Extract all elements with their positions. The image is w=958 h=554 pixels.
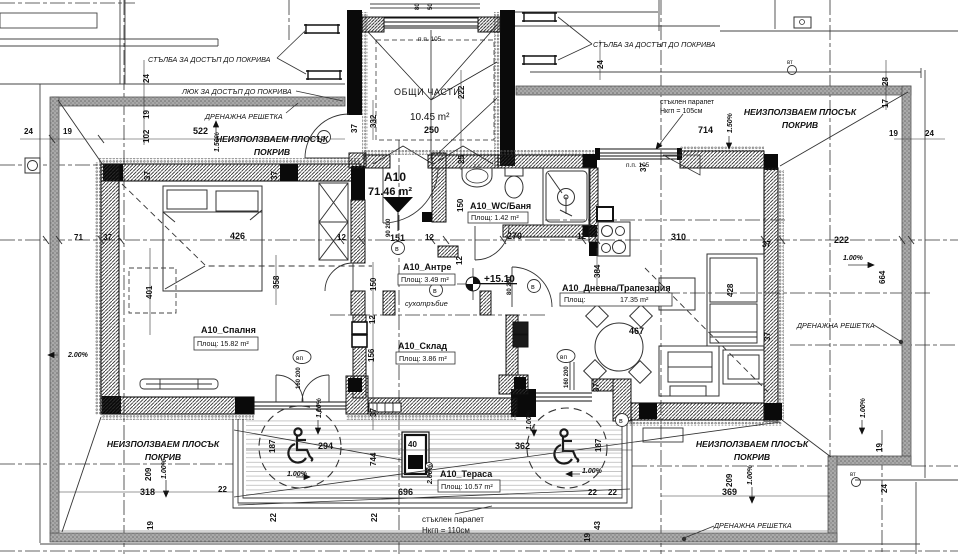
svg-text:вт: вт <box>787 60 793 66</box>
sofa <box>659 346 719 396</box>
svg-text:А10_WC/Баня: А10_WC/Баня <box>470 201 531 211</box>
svg-text:ПОКРИВ: ПОКРИВ <box>734 452 770 462</box>
svg-text:1.00%: 1.00% <box>747 464 754 485</box>
svg-text:1.00%: 1.00% <box>860 397 867 418</box>
stairwell left wall <box>347 10 362 115</box>
stairwell left wall lower stub <box>349 153 366 168</box>
kitchen cabinet <box>597 207 613 221</box>
downpipe marker vt <box>788 66 797 75</box>
svg-text:1.00%: 1.00% <box>526 409 533 430</box>
storage left pilasters <box>352 322 367 334</box>
svg-text:Площ: 10.57 m²: Площ: 10.57 m² <box>441 482 493 491</box>
svg-text:СТЪЛБА ЗА ДОСТЪП ДО ПОКРИВА: СТЪЛБА ЗА ДОСТЪП ДО ПОКРИВА <box>148 55 271 64</box>
svg-text:ЛЮК ЗА ДОСТЪП ДО ПОКРИВА: ЛЮК ЗА ДОСТЪП ДО ПОКРИВА <box>181 87 292 96</box>
svg-text:318: 318 <box>140 487 155 497</box>
svg-text:в: в <box>433 288 437 295</box>
svg-text:37: 37 <box>350 124 359 133</box>
svg-text:НЕИЗПОЛЗВАЕМ ПЛОСЪК: НЕИЗПОЛЗВАЕМ ПЛОСЪК <box>744 107 857 117</box>
wardrobe <box>319 183 348 260</box>
svg-text:151: 151 <box>390 233 405 243</box>
storage SW corner <box>346 376 368 414</box>
column top-mid <box>280 164 298 181</box>
column living-NE <box>764 154 778 170</box>
svg-text:22: 22 <box>218 485 227 494</box>
scupper funnel <box>663 155 700 175</box>
svg-text:вп: вп <box>296 355 303 362</box>
svg-text:вп: вп <box>560 354 567 361</box>
svg-text:150: 150 <box>456 198 465 212</box>
parapet band right <box>902 86 911 465</box>
parapet band left <box>50 97 59 533</box>
shower <box>543 168 590 225</box>
parapet band top-left <box>52 97 345 106</box>
column living-S <box>639 403 657 419</box>
bedroom top wall insulation <box>99 158 361 164</box>
tv cabinet <box>659 278 695 310</box>
column bottom-mid <box>235 397 254 414</box>
svg-text:160 200: 160 200 <box>564 366 570 388</box>
bath door stub <box>438 246 458 257</box>
svg-text:362: 362 <box>515 441 530 451</box>
bedroom right wall lower stub <box>351 291 365 315</box>
svg-text:стъклен парапет: стъклен парапет <box>660 99 715 106</box>
storage bottom wall <box>368 398 517 414</box>
svg-text:п.п. 105: п.п. 105 <box>418 36 442 43</box>
svg-text:12: 12 <box>337 233 346 242</box>
svg-text:10.45 m²: 10.45 m² <box>410 112 450 123</box>
living corner diag TR <box>780 92 908 166</box>
drain box 40 <box>402 432 433 477</box>
storage right pilasters <box>513 322 528 334</box>
svg-text:1.50%: 1.50% <box>727 112 734 133</box>
svg-text:25: 25 <box>457 155 466 164</box>
svg-text:ПОКРИВ: ПОКРИВ <box>145 452 181 462</box>
svg-text:467: 467 <box>629 326 644 336</box>
svg-text:19: 19 <box>583 533 592 542</box>
parapet band bottom <box>50 533 837 542</box>
axis marker left <box>25 158 40 173</box>
roof access door arc <box>305 114 349 158</box>
svg-text:12: 12 <box>368 315 377 324</box>
bedroom bottom wall insulation <box>101 414 254 420</box>
column top-left <box>103 164 123 181</box>
svg-text:стъклен парапет: стъклен парапет <box>422 515 484 524</box>
parapet band top-right <box>516 86 911 95</box>
svg-text:1.00%: 1.00% <box>316 397 323 418</box>
storage left wall <box>353 315 366 398</box>
A10 apartment marker <box>383 197 413 213</box>
shelving cabinet <box>707 254 764 346</box>
bedroom door arc <box>325 263 353 291</box>
svg-text:ДРЕНАЖНА РЕШЕТКА: ДРЕНАЖНА РЕШЕТКА <box>713 521 792 530</box>
svg-text:37: 37 <box>270 171 279 180</box>
svg-text:СТЪЛБА ЗА ДОСТЪП ДО ПОКРИВА: СТЪЛБА ЗА ДОСТЪП ДО ПОКРИВА <box>593 40 716 49</box>
living right wall insulation <box>778 170 784 420</box>
terrace parapet lines <box>233 419 632 508</box>
svg-text:1.00%: 1.00% <box>843 255 864 262</box>
svg-text:А10_Дневна/Трапезария: А10_Дневна/Трапезария <box>562 283 671 293</box>
stairwell top wall left block <box>362 17 384 32</box>
svg-text:37: 37 <box>369 408 378 417</box>
living step wall horiz <box>592 379 613 391</box>
bedroom terrace door arcs <box>276 375 329 402</box>
svg-text:37: 37 <box>143 171 152 180</box>
svg-text:50: 50 <box>428 3 434 10</box>
bench radiator <box>140 379 218 389</box>
svg-text:Площ: 1.42 m²: Площ: 1.42 m² <box>471 213 519 222</box>
svg-text:ОБЩИ ЧАСТИ: ОБЩИ ЧАСТИ <box>394 87 460 97</box>
svg-text:Площ: 3.86 m²: Площ: 3.86 m² <box>399 354 447 363</box>
svg-text:22: 22 <box>269 513 278 522</box>
svg-text:12: 12 <box>455 256 464 265</box>
column bath-NE <box>583 154 597 168</box>
svg-text:в: в <box>619 418 623 425</box>
kitchen wall end block <box>589 242 598 256</box>
level marker <box>457 268 517 300</box>
svg-text:294: 294 <box>318 441 333 451</box>
svg-text:1.00%: 1.00% <box>287 471 308 478</box>
svg-text:1.00%: 1.00% <box>582 468 603 475</box>
svg-text:332: 332 <box>369 114 378 128</box>
entry door arc <box>383 168 438 223</box>
column bottom-left <box>102 396 121 414</box>
stove <box>598 222 630 256</box>
chairs <box>584 305 653 384</box>
living terrace door arcs <box>512 267 574 390</box>
svg-text:696: 696 <box>398 487 413 497</box>
svg-text:А10_Спалня: А10_Спалня <box>201 325 256 335</box>
svg-text:28: 28 <box>881 77 890 86</box>
svg-text:270: 270 <box>507 231 522 241</box>
svg-text:37: 37 <box>103 233 112 242</box>
living top wall <box>680 151 764 168</box>
terrace door threshold <box>369 403 401 412</box>
parapet band step <box>833 456 911 465</box>
terrace slope lines <box>234 422 780 505</box>
stairwell roof diagonals <box>0 0 1 1</box>
svg-text:71: 71 <box>74 233 83 242</box>
bedroom top wall <box>101 164 361 181</box>
svg-text:19: 19 <box>875 443 884 452</box>
svg-text:Площ: 3.49 m²: Площ: 3.49 m² <box>401 275 449 284</box>
living top wall insulation <box>680 146 764 151</box>
dining table <box>595 323 643 371</box>
svg-text:37: 37 <box>592 383 601 392</box>
svg-text:209: 209 <box>144 467 153 481</box>
sink <box>462 168 492 187</box>
svg-text:744: 744 <box>369 452 378 466</box>
area boxes <box>194 212 672 492</box>
storage top stub right <box>480 291 491 315</box>
svg-text:43: 43 <box>593 521 602 530</box>
living bottom wall <box>631 403 764 420</box>
stairwell top wall right block <box>478 17 500 32</box>
bedroom right wall black part <box>351 166 365 200</box>
svg-text:250: 250 <box>424 125 439 135</box>
bedroom left wall insulation <box>95 162 101 415</box>
downpipe marker vt bottom-right <box>852 478 861 487</box>
svg-text:24: 24 <box>24 127 33 136</box>
svg-text:24: 24 <box>925 129 934 138</box>
svg-text:сухотръбие: сухотръбие <box>405 299 448 308</box>
svg-text:19: 19 <box>63 127 72 136</box>
column bath-SE <box>583 225 597 237</box>
svg-text:ДРЕНАЖНА РЕШЕТКА: ДРЕНАЖНА РЕШЕТКА <box>204 112 283 121</box>
svg-text:19: 19 <box>889 129 898 138</box>
svg-text:п.п. 105: п.п. 105 <box>626 162 650 169</box>
terrace floor hatch <box>246 420 622 498</box>
svg-text:НЕИЗПОЛЗВАЕМ ПЛОСЪК: НЕИЗПОЛЗВАЕМ ПЛОСЪК <box>696 439 809 449</box>
bedroom slope dashed <box>122 184 372 266</box>
wheelchair circle right <box>527 408 607 488</box>
bedroom corner diag <box>58 100 103 165</box>
svg-text:187: 187 <box>268 439 277 453</box>
hall top wall <box>364 155 390 168</box>
svg-text:Нкгп = 105см: Нкгп = 105см <box>660 108 703 115</box>
bath bottom wall <box>503 225 583 237</box>
column living-SE <box>764 403 782 420</box>
svg-text:А10_Антре: А10_Антре <box>403 262 451 272</box>
svg-text:24: 24 <box>596 60 605 69</box>
armchair <box>723 350 764 384</box>
svg-text:22: 22 <box>588 488 597 497</box>
stairwell top window <box>384 17 478 28</box>
svg-text:369: 369 <box>722 487 737 497</box>
stair void dashed <box>376 40 494 140</box>
svg-text:209: 209 <box>725 473 734 487</box>
svg-text:Площ:: Площ: <box>564 295 585 304</box>
svg-text:90 200: 90 200 <box>386 218 392 237</box>
svg-text:150: 150 <box>369 277 378 291</box>
svg-text:426: 426 <box>230 231 245 241</box>
bedroom bottom wall <box>101 397 254 414</box>
living corner diag BR <box>782 420 831 457</box>
svg-text:ДРЕНАЖНА РЕШЕТКА: ДРЕНАЖНА РЕШЕТКА <box>796 321 875 330</box>
parapet band lower-right <box>828 456 837 542</box>
glass parapet living <box>597 149 680 159</box>
roof hatch rect right <box>643 428 683 442</box>
bedroom left wall <box>101 164 119 412</box>
toilet <box>505 168 523 176</box>
wheelchair circle left <box>259 406 341 488</box>
living SW corner block <box>511 389 536 417</box>
bed <box>163 186 262 291</box>
svg-text:384: 384 <box>593 264 602 278</box>
svg-text:17.35 m²: 17.35 m² <box>620 295 649 304</box>
svg-text:Нкгп = 110см: Нкгп = 110см <box>422 526 470 535</box>
svg-text:401: 401 <box>145 285 154 299</box>
svg-text:Площ: 15.82 m²: Площ: 15.82 m² <box>197 339 249 348</box>
svg-text:156: 156 <box>367 348 376 362</box>
living slope dashed <box>645 268 768 392</box>
hall top wall insulation <box>364 150 598 155</box>
svg-text:НЕИЗПОЛЗВАЕМ ПЛОСЪК: НЕИЗПОЛЗВАЕМ ПЛОСЪК <box>107 439 220 449</box>
svg-text:310: 310 <box>671 232 686 242</box>
left bottom corner diag <box>62 417 101 532</box>
stairwell left wall insulation <box>362 12 368 160</box>
svg-text:2.00%: 2.00% <box>67 352 89 359</box>
svg-text:37: 37 <box>762 240 771 249</box>
storage right wall <box>506 315 518 375</box>
svg-text:71.46 m²: 71.46 m² <box>368 186 412 198</box>
svg-text:222: 222 <box>834 235 849 245</box>
svg-text:664: 664 <box>878 270 887 284</box>
living right wall <box>764 168 778 421</box>
bath top wall <box>498 155 583 168</box>
svg-text:12: 12 <box>425 233 434 242</box>
svg-text:19: 19 <box>146 521 155 530</box>
svg-text:160 200: 160 200 <box>296 367 302 389</box>
svg-text:37: 37 <box>763 332 772 341</box>
svg-text:19: 19 <box>142 110 151 119</box>
living bottom wall insulation <box>615 420 782 426</box>
svg-text:А10_Склад: А10_Склад <box>398 341 447 351</box>
storage bottom insulation <box>346 414 517 420</box>
svg-text:714: 714 <box>698 125 713 135</box>
railing ladder top-left a <box>304 12 557 80</box>
bedroom terrace window <box>254 402 346 409</box>
living terrace door lines <box>536 393 592 401</box>
svg-text:80: 80 <box>415 3 421 10</box>
svg-text:428: 428 <box>726 283 735 297</box>
svg-text:А10: А10 <box>384 170 406 184</box>
svg-text:НЕИЗПОЛЗВАЕМ ПЛОСЪК: НЕИЗПОЛЗВАЕМ ПЛОСЪК <box>216 134 329 144</box>
svg-text:24: 24 <box>880 484 889 493</box>
nightstand dashed <box>129 268 176 313</box>
bedroom right wall <box>351 200 365 263</box>
svg-text:+15.10: +15.10 <box>484 274 515 285</box>
svg-text:12: 12 <box>577 232 586 241</box>
svg-text:вт: вт <box>850 472 856 478</box>
stairwell right wall insulation <box>494 12 500 166</box>
svg-text:22: 22 <box>608 488 617 497</box>
roof hatch box top-right <box>794 17 811 28</box>
living step wall vert <box>613 379 631 421</box>
stair flight lines <box>368 25 497 164</box>
svg-text:358: 358 <box>272 275 281 289</box>
entry opening <box>428 155 498 168</box>
svg-text:2.00%: 2.00% <box>427 463 434 485</box>
svg-text:22: 22 <box>370 513 379 522</box>
storage top stub left <box>383 291 395 315</box>
svg-text:522: 522 <box>193 126 208 136</box>
svg-text:ПОКРИВ: ПОКРИВ <box>782 120 818 130</box>
svg-text:24: 24 <box>142 74 151 83</box>
svg-text:40: 40 <box>408 440 417 449</box>
svg-text:в: в <box>531 284 535 291</box>
storage SE corner <box>499 375 528 394</box>
svg-text:17: 17 <box>881 99 890 108</box>
bath door arc <box>475 226 509 260</box>
svg-text:в: в <box>395 246 399 253</box>
stairwell right wall <box>500 10 515 166</box>
svg-text:А10_Тераса: А10_Тераса <box>440 469 493 479</box>
svg-text:102: 102 <box>142 129 151 143</box>
bath left wall <box>432 153 446 222</box>
svg-text:ПОКРИВ: ПОКРИВ <box>254 147 290 157</box>
svg-text:187: 187 <box>594 438 603 452</box>
kitchen wall <box>589 168 598 242</box>
